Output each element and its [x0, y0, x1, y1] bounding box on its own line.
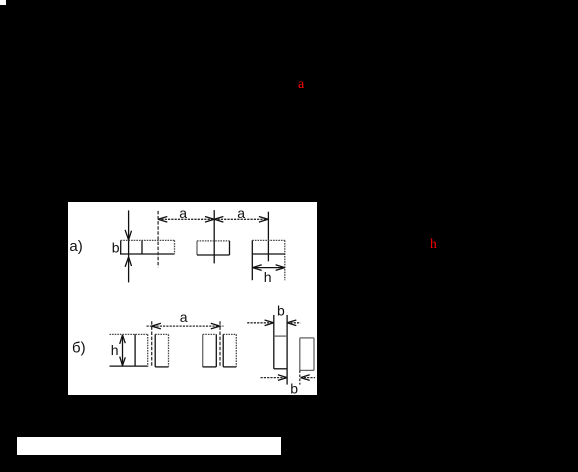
right mark left side	[251, 240, 253, 280]
middle rect	[197, 240, 230, 242]
rect1 divider	[141, 240, 143, 254]
mark A bottom	[274, 368, 287, 370]
a extension line 2 (row b)	[219, 321, 221, 366]
h double arrow vertical	[122, 335, 124, 366]
white square top-left	[0, 0, 6, 5]
right mark center line	[267, 212, 269, 262]
a extension line 1	[157, 211, 159, 267]
white bar bottom	[17, 437, 281, 455]
svg-text:h: h	[111, 342, 119, 358]
b arrow up (below rect)	[125, 257, 131, 267]
a extension line 1 (row b)	[151, 321, 153, 366]
arrow right (row b a-dim)	[211, 323, 220, 329]
right mark top edge	[252, 239, 284, 241]
bottom b dimension line	[261, 377, 288, 379]
mark A top divider	[274, 335, 287, 337]
rect2	[155, 333, 168, 335]
dimension line a (row b)	[147, 325, 224, 327]
right mark divider (mark bottom)	[252, 253, 284, 255]
b arrow down (above rect)	[125, 230, 131, 240]
figure white background	[68, 202, 317, 395]
dimension line a (row a)	[158, 218, 268, 220]
left group right edge	[147, 334, 149, 366]
mark B rect	[300, 337, 314, 339]
mark B left edge extension down	[299, 370, 301, 384]
left group bottom line	[110, 365, 149, 367]
svg-text:b: b	[112, 240, 120, 256]
arrow right at right center line	[259, 217, 268, 223]
arrow left (row b a-dim)	[152, 323, 161, 329]
rect1 left edge	[120, 240, 122, 254]
svg-text:a: a	[237, 205, 245, 221]
arrows at center line (middle)	[205, 217, 214, 223]
mark A left side	[273, 315, 275, 369]
rect1 top edge	[121, 239, 175, 241]
svg-text:а): а)	[69, 238, 82, 255]
arrow left at ext1	[158, 217, 167, 223]
svg-text:a: a	[179, 205, 187, 221]
h dimension arrow (row a)	[253, 267, 285, 269]
svg-text:h: h	[264, 269, 272, 285]
svg-text:b: b	[277, 303, 285, 319]
rect3	[203, 333, 217, 335]
left group top line	[110, 333, 149, 335]
figure: road marking dimension drawing	[68, 202, 317, 395]
middle rect center line	[213, 210, 215, 263]
left group divider	[134, 334, 136, 366]
red letter a	[298, 79, 304, 91]
svg-text:a: a	[180, 309, 188, 325]
svg-text:b: b	[290, 381, 298, 396]
svg-text:б): б)	[72, 340, 86, 357]
top b dimension line	[247, 322, 274, 324]
b extension line	[128, 210, 130, 282]
right mark right side	[284, 240, 286, 280]
rect4	[223, 333, 236, 335]
top b arrows	[265, 320, 274, 326]
mark A right side + extension down	[286, 315, 288, 385]
bottom b arrows	[278, 375, 287, 381]
red letter h	[430, 238, 437, 249]
rect1 right edge	[174, 240, 176, 254]
rect1 bottom edge	[120, 253, 175, 255]
